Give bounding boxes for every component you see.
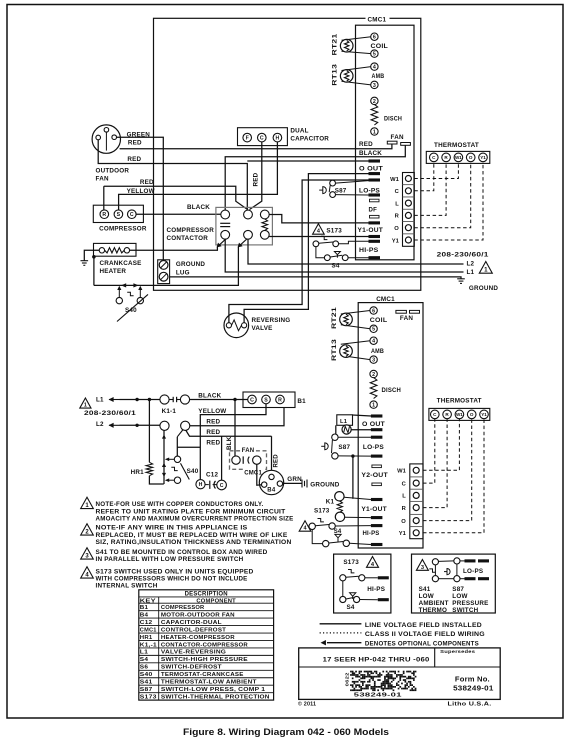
- svg-text:6: 6: [372, 308, 375, 314]
- svg-text:DUAL: DUAL: [290, 128, 308, 135]
- wire BLK drop to fan plate: [234, 400, 236, 461]
- CMC1 terminal bars (top): [369, 159, 381, 162]
- svg-text:L: L: [395, 201, 399, 207]
- legend class II: [320, 632, 362, 634]
- svg-text:538249-01: 538249-01: [453, 684, 494, 693]
- svg-text:B4: B4: [140, 612, 149, 618]
- svg-text:CONTROL-DEFROST: CONTROL-DEFROST: [161, 627, 227, 633]
- wire K1-2 drop: [163, 430, 165, 484]
- defrost control CMC1 box (bottom): [358, 303, 423, 548]
- outdoor fan motor: [92, 125, 120, 153]
- switch S4 high pressure (top): [324, 255, 330, 261]
- svg-text:LUG: LUG: [176, 269, 190, 276]
- svg-text:BLACK: BLACK: [187, 204, 210, 211]
- junction dot S87: [351, 454, 354, 457]
- svg-text:O: O: [401, 519, 406, 525]
- svg-text:SWITCH-DEFROST: SWITCH-DEFROST: [161, 665, 222, 671]
- svg-text:WITH COMPRESSORS WHICH DO NOT: WITH COMPRESSORS WHICH DO NOT INCLUDE: [96, 577, 248, 583]
- defrost control CMC1 box (top): [356, 25, 415, 260]
- warning triangle 1 ref (top): [479, 262, 492, 274]
- svg-text:208-230/60/1: 208-230/60/1: [437, 252, 489, 259]
- svg-text:COMPRESSOR: COMPRESSOR: [99, 226, 147, 233]
- svg-text:THERMOSTAT-LOW AMBIENT: THERMOSTAT-LOW AMBIENT: [161, 680, 257, 686]
- warning triangle note 2: [81, 524, 94, 535]
- svg-text:COIL: COIL: [370, 317, 388, 324]
- svg-text:HR1: HR1: [131, 469, 144, 476]
- svg-text:REPLACED, IT MUST BE REPLACED: REPLACED, IT MUST BE REPLACED WITH WIRE …: [96, 533, 288, 539]
- heater HR1 (bottom): [146, 462, 152, 475]
- svg-text:S173: S173: [326, 228, 342, 235]
- wire S87 to K1 coil: [352, 456, 354, 499]
- svg-text:SWITCH-THERMAL PROTECTION: SWITCH-THERMAL PROTECTION: [161, 694, 270, 700]
- contactor contact K1-1: [160, 395, 169, 404]
- CMC1 terminal bars (bottom): [371, 414, 383, 417]
- wire BLACK K1-1 to B1: [190, 399, 248, 401]
- switch S87 (top): [330, 180, 336, 186]
- svg-text:L1: L1: [467, 269, 475, 276]
- contactor contact K1-2: [160, 421, 169, 430]
- svg-text:LO-PS: LO-PS: [359, 187, 380, 194]
- crankcase heater HR1: [94, 243, 137, 256]
- svg-text:REFER TO UNIT RATING PLATE FOR: REFER TO UNIT RATING PLATE FOR MINIMUM C…: [96, 509, 286, 515]
- svg-text:RT21: RT21: [331, 307, 338, 329]
- ground symbol (top): [457, 278, 465, 280]
- svg-text:NOTE-IF ANY WIRE IN THIS APPLI: NOTE-IF ANY WIRE IN THIS APPLIANCE IS: [96, 526, 248, 532]
- wire L1 valve to bar: [351, 429, 371, 431]
- wire L1 contactor to right: [225, 239, 463, 272]
- svg-text:FAN: FAN: [242, 448, 255, 454]
- svg-text:KEY: KEY: [140, 598, 156, 604]
- wire RED fan-left to contactor: [98, 140, 247, 211]
- terminal strip W1-Y1 (bottom): [410, 464, 423, 539]
- warning triangle note 4: [81, 567, 94, 578]
- svg-text:RED: RED: [140, 179, 154, 186]
- svg-text:H: H: [199, 482, 203, 488]
- svg-text:Litho U.S.A.: Litho U.S.A.: [448, 702, 492, 708]
- thermostat terminals (bottom): [429, 408, 490, 420]
- wire RED S40 to C12-H: [177, 446, 200, 448]
- svg-text:DISCH: DISCH: [382, 387, 402, 394]
- junction dots L1: [135, 398, 138, 401]
- svg-text:K1-1: K1-1: [162, 408, 177, 415]
- wire L1 to K1-1: [120, 399, 160, 401]
- svg-text:R: R: [102, 212, 106, 218]
- svg-text:S87: S87: [452, 586, 464, 593]
- legend line voltage: [320, 623, 362, 625]
- svg-text:YELLOW: YELLOW: [127, 188, 155, 195]
- switch S87 (bottom): [332, 434, 338, 440]
- svg-text:COIL: COIL: [371, 43, 389, 50]
- svg-text:S173: S173: [343, 559, 359, 566]
- svg-text:FAN: FAN: [400, 315, 413, 322]
- svg-text:Figure 8. Wiring Diagram 042 -: Figure 8. Wiring Diagram 042 - 060 Model…: [183, 727, 389, 737]
- svg-text:S87: S87: [338, 444, 350, 451]
- svg-text:1: 1: [84, 403, 87, 409]
- warning triangle 4 (detail): [367, 557, 379, 568]
- wire L2 to K1-2: [120, 424, 160, 426]
- svg-text:AMOACITY AND MAXIMUM OVERCURRE: AMOACITY AND MAXIMUM OVERCURRENT PROTECT…: [96, 517, 294, 523]
- wire GREEN fan to ground lug: [117, 137, 164, 260]
- svg-text:1: 1: [372, 403, 375, 409]
- thermostat dashed wiring (bottom): [423, 419, 459, 470]
- svg-text:W1: W1: [390, 177, 399, 183]
- svg-text:DENOTES OPTIONAL COMPONENTS: DENOTES OPTIONAL COMPONENTS: [365, 642, 479, 648]
- svg-text:© 2011: © 2011: [298, 701, 316, 708]
- svg-text:C: C: [130, 212, 134, 218]
- svg-text:OUTDOOR: OUTDOOR: [96, 168, 130, 175]
- svg-text:S: S: [264, 397, 268, 403]
- detail box S173/S4: [334, 554, 391, 613]
- svg-text:S4: S4: [334, 529, 342, 535]
- svg-text:BLACK: BLACK: [359, 150, 382, 157]
- wire YELLOW compressor S to capacitor H: [119, 142, 278, 210]
- svg-text:3: 3: [373, 83, 376, 89]
- svg-text:SWITCH: SWITCH: [452, 607, 478, 614]
- svg-text:C: C: [220, 483, 224, 489]
- svg-text:PRESSURE: PRESSURE: [452, 600, 488, 607]
- svg-text:S4: S4: [140, 657, 149, 663]
- svg-text:LO-PS: LO-PS: [363, 444, 384, 451]
- svg-text:RT13: RT13: [331, 339, 338, 361]
- CMC1 fan terminals (bottom): [396, 310, 407, 313]
- svg-text:5: 5: [372, 327, 375, 333]
- outdoor fan motor B4 (bottom): [259, 470, 283, 494]
- L2 feed arrow (bottom): [109, 424, 120, 426]
- svg-text:BLK: BLK: [226, 436, 233, 450]
- svg-text:O: O: [394, 226, 399, 232]
- ground symbol small: [81, 260, 89, 262]
- svg-text:GROUND: GROUND: [469, 285, 498, 292]
- svg-text:HI-PS: HI-PS: [359, 247, 379, 254]
- svg-text:RED: RED: [274, 454, 280, 468]
- svg-text:K1: K1: [326, 498, 335, 505]
- svg-text:1: 1: [373, 129, 376, 135]
- svg-text:L1: L1: [140, 650, 149, 656]
- svg-text:CMC1: CMC1: [376, 296, 395, 303]
- svg-text:S4: S4: [347, 604, 355, 611]
- svg-text:NOTE-FOR USE WITH COPPER CONDU: NOTE-FOR USE WITH COPPER CONDUCTORS ONLY…: [96, 502, 264, 508]
- svg-text:O: O: [470, 412, 474, 417]
- compressor B1 (bottom): [243, 392, 295, 408]
- wire L1 box to S87: [335, 425, 337, 434]
- wire S40 horizontal to contactor contact: [94, 247, 239, 286]
- reversing valve solenoid L1 (bottom): [337, 415, 353, 426]
- svg-text:B1: B1: [140, 605, 149, 611]
- detail S41/S87 contacts: [432, 559, 438, 565]
- svg-text:L2: L2: [96, 421, 104, 428]
- wire ground lug to ground point: [170, 277, 461, 279]
- svg-text:FAN: FAN: [96, 176, 109, 183]
- wire BLACK compressor C to contactor: [136, 213, 221, 215]
- svg-text:RED: RED: [206, 439, 220, 446]
- ground lug: [158, 260, 170, 284]
- svg-text:Y1: Y1: [480, 155, 486, 160]
- svg-text:IN PARALLEL WITH LOW PRESSURE: IN PARALLEL WITH LOW PRESSURE SWITCH: [96, 557, 244, 563]
- switch S40 (bottom): [174, 456, 180, 462]
- svg-text:S87: S87: [335, 187, 347, 194]
- switch S173 contacts (bottom): [309, 523, 315, 529]
- svg-text:GROUND: GROUND: [176, 261, 205, 268]
- svg-text:HI-PS: HI-PS: [367, 586, 385, 593]
- wire HR1 top: [148, 400, 150, 463]
- compressor contactor K1: [216, 207, 273, 245]
- svg-text:FAN: FAN: [391, 134, 404, 141]
- warning triangle 1 ref (bottom): [80, 398, 91, 408]
- svg-text:0622: 0622: [344, 672, 349, 686]
- svg-text:RED: RED: [359, 141, 373, 148]
- svg-text:RED: RED: [127, 156, 141, 163]
- svg-text:Y1: Y1: [392, 238, 400, 244]
- svg-text:L: L: [402, 494, 406, 500]
- svg-text:HR1: HR1: [140, 635, 153, 641]
- svg-text:CRANKCASE: CRANKCASE: [100, 260, 142, 267]
- svg-text:H: H: [276, 135, 280, 141]
- svg-text:Y1-OUT: Y1-OUT: [361, 506, 387, 513]
- svg-text:GROUND: GROUND: [310, 481, 339, 488]
- svg-text:S40: S40: [125, 307, 137, 314]
- warning triangle 4 ref (bottom): [299, 521, 311, 531]
- svg-text:F: F: [246, 135, 249, 141]
- barcode: [350, 671, 352, 673]
- svg-text:S41: S41: [419, 586, 431, 593]
- svg-text:TERMOSTAT-CRANKCASE: TERMOSTAT-CRANKCASE: [161, 672, 244, 678]
- warning triangle note 3: [81, 548, 94, 559]
- svg-text:C12: C12: [140, 620, 153, 626]
- svg-text:3: 3: [372, 358, 375, 364]
- wire RED run stub: [103, 186, 105, 210]
- svg-text:SIZ, RATING,INSULATION THICKNE: SIZ, RATING,INSULATION THICKNESS AND TER…: [96, 540, 292, 546]
- wire CMC1 Q-out to contactor node: [247, 160, 368, 162]
- svg-text:B4: B4: [267, 488, 276, 494]
- ground symbol (B4): [301, 480, 303, 488]
- wire RED to C12-C and B4: [186, 430, 272, 436]
- svg-text:CMC1: CMC1: [368, 17, 387, 24]
- svg-text:4: 4: [373, 65, 376, 71]
- sensors RT21 RT13 (bottom): [341, 311, 370, 315]
- terminal strip W1-Y1 (top): [403, 173, 415, 247]
- svg-text:CONTACTOR: CONTACTOR: [167, 235, 209, 242]
- detail box S41/S87: [412, 554, 496, 613]
- wire YELLOW S to C12-H: [200, 404, 266, 479]
- title block box: [299, 648, 501, 700]
- svg-text:1: 1: [484, 267, 488, 274]
- label FAN (bottom): [241, 446, 256, 452]
- warning triangle 4 ref (top): [313, 224, 325, 234]
- component table grid: [139, 590, 274, 700]
- CMC1 terminals 6-1 and DISCH resistor (top): [371, 33, 378, 40]
- wire C12-C stem: [221, 436, 223, 480]
- svg-text:GRN: GRN: [287, 476, 302, 483]
- svg-text:VALVE-REVERSING: VALVE-REVERSING: [161, 650, 227, 656]
- warning triangle note 1: [81, 497, 94, 508]
- junction dot L2: [135, 424, 138, 427]
- svg-text:C: C: [260, 135, 264, 141]
- svg-text:K1,-1: K1,-1: [140, 642, 158, 648]
- reversing valve L1 (top): [224, 313, 249, 338]
- svg-text:538249-01: 538249-01: [354, 693, 402, 699]
- CMC1 fan terminals (top): [387, 141, 397, 144]
- svg-text:BLACK: BLACK: [198, 392, 221, 399]
- dual capacitor C12: [238, 128, 288, 146]
- wire B4 stem: [271, 436, 273, 472]
- wire heater to ground: [84, 250, 99, 260]
- svg-text:O OUT: O OUT: [359, 166, 383, 173]
- svg-text:AMB: AMB: [372, 73, 385, 80]
- switch S4 (bottom): [323, 540, 329, 546]
- svg-text:THERMOSTAT: THERMOSTAT: [434, 142, 479, 149]
- wire fan plate to B4: [257, 464, 262, 485]
- svg-text:SWITCH-HIGH PRESSURE: SWITCH-HIGH PRESSURE: [161, 657, 248, 663]
- svg-text:RED: RED: [206, 429, 220, 436]
- svg-text:HEATER-COMPRESSOR: HEATER-COMPRESSOR: [161, 635, 236, 641]
- wire RED L2 to B1: [190, 408, 284, 426]
- wire contactor coil bottom to CMC1: [269, 236, 368, 238]
- svg-text:INTERNAL SWITCH: INTERNAL SWITCH: [96, 584, 158, 590]
- capacitor C12 (bottom): [196, 480, 205, 489]
- svg-text:DISCH: DISCH: [384, 115, 402, 122]
- sensors RT21 RT13 (top): [342, 37, 372, 41]
- svg-text:C12: C12: [206, 472, 218, 479]
- svg-text:S173: S173: [140, 694, 157, 700]
- wire S40 stem: [176, 437, 178, 456]
- svg-text:LOW: LOW: [419, 593, 434, 600]
- K1-2 drop arrows: [162, 435, 166, 439]
- svg-text:6: 6: [373, 35, 376, 41]
- detail S173 contacts: [340, 575, 346, 581]
- svg-text:O: O: [469, 155, 473, 160]
- svg-text:4: 4: [372, 339, 375, 345]
- wire L2 contactor to right: [248, 239, 464, 264]
- svg-text:W1: W1: [455, 155, 462, 160]
- thermostat terminals (top): [426, 151, 490, 163]
- svg-text:LINE VOLTAGE FIELD INSTALLED: LINE VOLTAGE FIELD INSTALLED: [365, 623, 483, 629]
- label CMC1 (bottom fan): [243, 468, 265, 475]
- wire HR1 bottom: [149, 476, 163, 484]
- svg-text:5: 5: [373, 52, 376, 58]
- svg-text:AMBIENT: AMBIENT: [419, 600, 449, 607]
- svg-text:Supersedes: Supersedes: [440, 649, 475, 655]
- wire heater drop to S40 line: [93, 257, 95, 286]
- svg-text:S4: S4: [332, 263, 340, 270]
- svg-text:HI-PS: HI-PS: [363, 530, 380, 537]
- wire GRN B4 to ground: [283, 482, 302, 484]
- svg-text:GREEN: GREEN: [127, 132, 151, 139]
- svg-text:COMPRESSOR: COMPRESSOR: [161, 605, 205, 611]
- wire valve left to CMC1: [229, 180, 369, 323]
- svg-text:S40: S40: [140, 672, 153, 678]
- svg-text:3: 3: [421, 565, 424, 571]
- svg-text:CLASS II VOLTAGE FIELD WIRING: CLASS II VOLTAGE FIELD WIRING: [365, 632, 485, 638]
- wire capacitor C to contactor: [250, 142, 262, 210]
- svg-text:RT13: RT13: [332, 64, 339, 86]
- svg-text:COMPRESSOR: COMPRESSOR: [167, 227, 215, 234]
- svg-text:CONTACTOR-COMPRESSOR: CONTACTOR-COMPRESSOR: [161, 642, 249, 648]
- svg-text:S6: S6: [140, 665, 149, 671]
- svg-text:C: C: [250, 397, 254, 403]
- wire RED fan to CMC1 fan terminal: [120, 144, 392, 149]
- svg-text:THERMOSTAT: THERMOSTAT: [437, 398, 482, 405]
- svg-text:AMB: AMB: [371, 348, 384, 355]
- svg-text:LOW: LOW: [452, 593, 467, 600]
- wire heater right to contactor contact: [130, 247, 218, 251]
- title block dividers: [299, 666, 501, 668]
- svg-text:B1: B1: [297, 398, 306, 405]
- switch S173 contacts (top): [313, 241, 319, 247]
- wire contactor coil top to CMC1: [269, 215, 368, 223]
- svg-text:LO-PS: LO-PS: [463, 568, 483, 575]
- svg-text:HEATER: HEATER: [100, 268, 127, 275]
- svg-text:S87: S87: [140, 687, 153, 693]
- wire RED compressor R to capacitor H: [104, 186, 247, 209]
- warning triangle 3 (detail): [416, 560, 428, 571]
- svg-text:RT21: RT21: [332, 33, 339, 55]
- wire L1 box to bar: [353, 415, 372, 416]
- svg-text:L1: L1: [340, 419, 348, 425]
- svg-text:REVERSING: REVERSING: [252, 317, 291, 324]
- svg-text:17 SEER HP-042 THRU -060: 17 SEER HP-042 THRU -060: [323, 656, 430, 663]
- detail S4 contacts: [340, 596, 346, 602]
- svg-text:RED: RED: [128, 140, 142, 147]
- svg-text:S173: S173: [314, 508, 330, 515]
- svg-text:S40: S40: [187, 468, 199, 475]
- svg-text:Y1: Y1: [399, 531, 407, 537]
- L1 feed arrow (bottom): [109, 399, 120, 401]
- svg-text:S41 TO BE MOUNTED IN CONTROL B: S41 TO BE MOUNTED IN CONTROL BOX AND WIR…: [96, 550, 268, 556]
- svg-text:THERMO: THERMO: [419, 607, 448, 614]
- svg-text:CMC1: CMC1: [140, 627, 157, 633]
- svg-text:MOTOR-OUTDOOR FAN: MOTOR-OUTDOOR FAN: [161, 612, 235, 618]
- svg-text:VALVE: VALVE: [252, 325, 273, 332]
- svg-text:S173 SWITCH USED ONLY IN UNITS: S173 SWITCH USED ONLY IN UNITS EQUIPPED: [96, 569, 255, 575]
- contactor coil K1 (bottom): [335, 492, 344, 501]
- compressor B1: [93, 205, 143, 222]
- svg-text:S: S: [117, 212, 121, 218]
- CMC1 terminals 6-1 and DISCH (bottom): [370, 307, 377, 314]
- legend optional: [327, 642, 361, 644]
- svg-text:Y2-OUT: Y2-OUT: [361, 472, 388, 479]
- svg-text:O OUT: O OUT: [362, 421, 385, 428]
- thermostat dashed wiring (top): [414, 162, 458, 179]
- svg-text:W1: W1: [456, 412, 463, 417]
- svg-text:R: R: [278, 397, 282, 403]
- svg-text:2: 2: [373, 99, 376, 105]
- svg-text:RED: RED: [206, 419, 220, 426]
- control box outline (top unit): [154, 18, 421, 290]
- svg-text:CMC1: CMC1: [244, 471, 262, 477]
- svg-text:W1: W1: [397, 469, 406, 475]
- wire valve right to CMC1: [244, 174, 368, 323]
- junction dot black: [233, 398, 236, 401]
- svg-text:Y1: Y1: [481, 412, 487, 417]
- svg-text:CAPACITOR-DUAL: CAPACITOR-DUAL: [161, 620, 222, 626]
- svg-text:L1: L1: [96, 397, 104, 404]
- svg-text:S41: S41: [140, 680, 153, 686]
- junction dot heater: [92, 255, 96, 259]
- svg-text:DF: DF: [369, 207, 378, 214]
- wire BLACK contactor to CMC1: [225, 145, 405, 210]
- svg-text:COMPONENT: COMPONENT: [196, 598, 236, 604]
- label CMC1 (top): [366, 15, 390, 23]
- svg-text:CAPACITOR: CAPACITOR: [290, 136, 329, 143]
- svg-text:2: 2: [372, 372, 375, 378]
- svg-text:Y1-OUT: Y1-OUT: [358, 227, 384, 234]
- svg-text:Form No.: Form No.: [455, 674, 490, 683]
- svg-text:208-230/60/1: 208-230/60/1: [84, 410, 136, 417]
- switch S40 (top): [116, 297, 122, 303]
- fan capacitor section dashed (bottom): [230, 451, 267, 470]
- svg-text:L2: L2: [467, 260, 475, 267]
- svg-text:DESCRIPTION: DESCRIPTION: [185, 592, 228, 598]
